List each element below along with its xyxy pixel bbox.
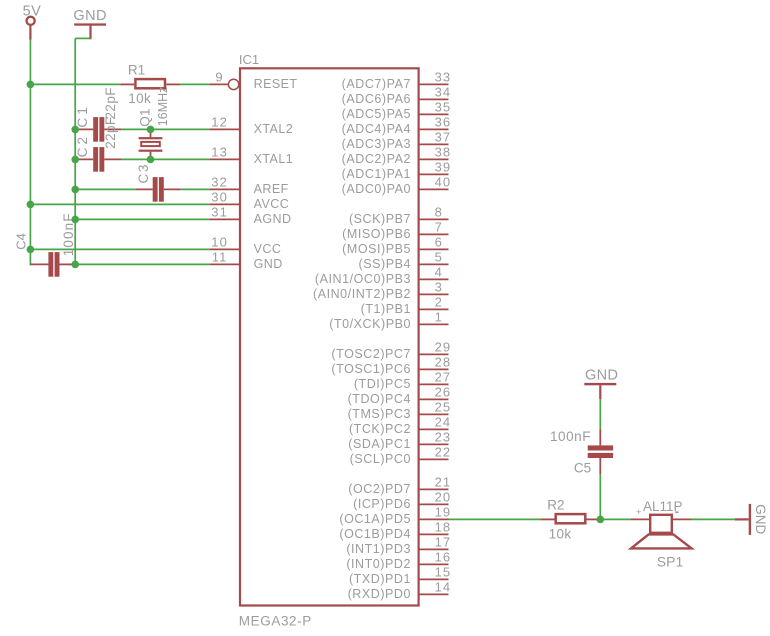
svg-text:37: 37 bbox=[435, 130, 452, 145]
svg-text:13: 13 bbox=[211, 145, 228, 160]
capacitor C2 22pF bbox=[75, 116, 121, 171]
svg-text:3: 3 bbox=[435, 280, 443, 295]
junction GND/AGND bbox=[71, 216, 79, 224]
IC1 right pin 34 (ADC6)PA6 bbox=[342, 85, 452, 106]
svg-text:SP1: SP1 bbox=[657, 553, 684, 569]
svg-text:(OC1B)PD4: (OC1B)PD4 bbox=[339, 527, 411, 541]
IC1 right pin 36 (ADC4)PA4 bbox=[342, 115, 452, 136]
IC1 right pin 40 (ADC0)PA0 bbox=[342, 175, 452, 196]
wire 5V to R1 bbox=[30, 83, 120, 85]
svg-text:40: 40 bbox=[435, 175, 452, 190]
svg-text:26: 26 bbox=[435, 385, 452, 400]
svg-text:36: 36 bbox=[435, 115, 452, 130]
svg-text:(ADC4)PA4: (ADC4)PA4 bbox=[342, 122, 411, 136]
IC1 right pin 23 (SDA)PC1 bbox=[348, 430, 451, 451]
junction GND/C3 bbox=[71, 186, 79, 194]
svg-text:20: 20 bbox=[435, 490, 452, 505]
svg-text:C4: C4 bbox=[14, 233, 29, 250]
svg-text:12: 12 bbox=[211, 115, 228, 130]
svg-text:(TMS)PC3: (TMS)PC3 bbox=[348, 407, 411, 421]
IC1 right pin 8 (SCK)PB7 bbox=[349, 205, 449, 226]
svg-text:5V: 5V bbox=[23, 3, 42, 19]
IC1 right pin 15 (TXD)PD1 bbox=[349, 565, 451, 586]
svg-text:19: 19 bbox=[435, 505, 452, 520]
IC1 right pin 25 (TMS)PC3 bbox=[348, 400, 452, 421]
IC1 right pin 39 (ADC1)PA1 bbox=[342, 160, 452, 181]
svg-text:100nF: 100nF bbox=[550, 429, 591, 444]
svg-text:(TOSC2)PC7: (TOSC2)PC7 bbox=[331, 347, 411, 361]
ground symbol GND (above C5) bbox=[584, 367, 618, 399]
svg-text:(ADC6)PA6: (ADC6)PA6 bbox=[342, 92, 411, 106]
svg-text:(ICP)PD6: (ICP)PD6 bbox=[353, 497, 411, 511]
svg-text:AREF: AREF bbox=[254, 182, 289, 196]
svg-text:+: + bbox=[636, 507, 642, 518]
svg-text:(T1)PB1: (T1)PB1 bbox=[361, 302, 411, 316]
svg-text:31: 31 bbox=[211, 205, 228, 220]
svg-text:21: 21 bbox=[435, 475, 452, 490]
speaker SP1 AL11P bbox=[631, 499, 692, 569]
svg-text:(AIN1/OC0)PB3: (AIN1/OC0)PB3 bbox=[315, 272, 411, 286]
wire GND vertical rail bbox=[74, 38, 76, 264]
wire GND symbol to rail bbox=[75, 37, 90, 39]
IC1 left pin 32 AREF bbox=[210, 175, 289, 196]
svg-text:(ADC5)PA5: (ADC5)PA5 bbox=[342, 107, 411, 121]
svg-text:34: 34 bbox=[435, 85, 452, 100]
svg-text:(SS)PB4: (SS)PB4 bbox=[359, 257, 411, 271]
svg-text:30: 30 bbox=[211, 190, 228, 205]
svg-text:AGND: AGND bbox=[254, 212, 292, 226]
svg-text:1: 1 bbox=[435, 310, 443, 325]
svg-text:C5: C5 bbox=[574, 460, 591, 475]
svg-text:(TOSC1)PC6: (TOSC1)PC6 bbox=[331, 362, 411, 376]
svg-text:39: 39 bbox=[435, 160, 452, 175]
svg-text:IC1: IC1 bbox=[239, 52, 259, 67]
svg-text:GND: GND bbox=[73, 8, 106, 24]
svg-text:23: 23 bbox=[435, 430, 452, 445]
junction XTAL1/Q1 bbox=[147, 156, 155, 164]
wire C3 to IC pin 32 bbox=[181, 188, 210, 190]
IC1 right pin 22 (SCL)PC0 bbox=[350, 445, 452, 466]
svg-text:22pF: 22pF bbox=[103, 116, 118, 148]
svg-text:25: 25 bbox=[435, 400, 452, 415]
ground symbol GND (top left) bbox=[73, 8, 106, 39]
IC1 right pin 33 (ADC7)PA7 bbox=[342, 70, 452, 91]
IC1 right pin 28 (TOSC1)PC6 bbox=[331, 355, 451, 376]
svg-text:17: 17 bbox=[435, 535, 452, 550]
svg-text:24: 24 bbox=[435, 415, 452, 430]
svg-text:VCC: VCC bbox=[254, 242, 282, 256]
IC1 right pin 38 (ADC2)PA2 bbox=[342, 145, 452, 166]
supply +5V symbol P1 bbox=[23, 3, 42, 39]
svg-text:10k: 10k bbox=[549, 526, 572, 541]
svg-text:(ADC1)PA1: (ADC1)PA1 bbox=[342, 167, 411, 181]
svg-text:(INT0)PD2: (INT0)PD2 bbox=[346, 557, 411, 571]
svg-text:10: 10 bbox=[211, 235, 228, 250]
svg-text:MEGA32-P: MEGA32-P bbox=[239, 614, 312, 629]
wire C5 to junction bbox=[599, 474, 601, 519]
svg-text:5: 5 bbox=[435, 250, 443, 265]
wire junction to SP1 bbox=[600, 518, 630, 520]
svg-text:R2: R2 bbox=[547, 497, 564, 512]
svg-text:GND: GND bbox=[585, 367, 618, 383]
wire 5V vertical rail bbox=[29, 40, 31, 266]
capacitor C5 100nF bbox=[550, 429, 613, 475]
svg-text:6: 6 bbox=[435, 235, 443, 250]
svg-text:27: 27 bbox=[435, 370, 452, 385]
svg-text:35: 35 bbox=[435, 100, 452, 115]
wire GND rail to AGND pin 31 bbox=[75, 218, 210, 220]
wire GND to C5 bbox=[599, 399, 601, 429]
IC1 right pin 17 (INT1)PD3 bbox=[346, 535, 451, 556]
IC1 right pin 5 (SS)PB4 bbox=[359, 250, 449, 271]
svg-text:16: 16 bbox=[435, 550, 452, 565]
IC1 right pin 16 (INT0)PD2 bbox=[346, 550, 451, 571]
svg-text:(TDI)PC5: (TDI)PC5 bbox=[354, 377, 411, 391]
IC1 left pin 12 XTAL2 bbox=[210, 115, 293, 136]
resistor R2 10k bbox=[540, 497, 600, 541]
svg-text:XTAL1: XTAL1 bbox=[254, 152, 294, 166]
svg-text:14: 14 bbox=[435, 580, 452, 595]
junction GND/C2 bbox=[71, 156, 79, 164]
svg-text:(ADC7)PA7: (ADC7)PA7 bbox=[342, 77, 411, 91]
svg-text:C3: C3 bbox=[136, 163, 151, 184]
wire GND junction to GND pin 11 bbox=[75, 263, 210, 265]
IC1 right pin 26 (TDO)PC4 bbox=[348, 385, 452, 406]
svg-text:(TDO)PC4: (TDO)PC4 bbox=[348, 392, 411, 406]
svg-text:16MHz: 16MHz bbox=[156, 87, 170, 127]
svg-text:18: 18 bbox=[435, 520, 452, 535]
wire GND rail to C3 bbox=[75, 188, 136, 190]
IC1 right pin 29 (TOSC2)PC7 bbox=[331, 340, 451, 361]
wire C2 to IC pin 13 bbox=[121, 158, 210, 160]
svg-text:(ADC2)PA2: (ADC2)PA2 bbox=[342, 152, 411, 166]
svg-text:RESET: RESET bbox=[254, 77, 298, 91]
svg-text:32: 32 bbox=[211, 175, 228, 190]
junction 5V/VCC bbox=[27, 246, 35, 254]
IC1 right pin 19 (OC1A)PD5 bbox=[339, 505, 451, 526]
svg-text:(TXD)PD1: (TXD)PD1 bbox=[349, 572, 411, 586]
svg-text:GND: GND bbox=[753, 504, 768, 534]
IC1 right pin 6 (MOSI)PB5 bbox=[342, 235, 448, 256]
svg-text:(SDA)PC1: (SDA)PC1 bbox=[348, 437, 411, 451]
ground symbol GND (right, rotated) bbox=[735, 504, 769, 535]
capacitor C3 bbox=[136, 163, 181, 202]
IC1 left pin 10 VCC bbox=[210, 235, 281, 256]
IC1 right pin 18 (OC1B)PD4 bbox=[339, 520, 451, 541]
svg-text:11: 11 bbox=[212, 250, 228, 265]
IC1 right pin 27 (TDI)PC5 bbox=[354, 370, 451, 391]
IC1 right pin 14 (RXD)PD0 bbox=[348, 580, 452, 601]
wire 5V rail to VCC pin 10 bbox=[30, 248, 210, 250]
junction 5V/AVCC bbox=[27, 201, 35, 209]
junction GND/C1 bbox=[71, 126, 79, 134]
IC1 left pin 11 GND bbox=[210, 250, 283, 271]
IC1 right pin 24 (TCK)PC2 bbox=[349, 415, 451, 436]
junction XTAL2/Q1 bbox=[147, 126, 155, 134]
svg-text:(ADC0)PA0: (ADC0)PA0 bbox=[342, 182, 411, 196]
svg-text:Q1: Q1 bbox=[138, 108, 153, 127]
svg-text:8: 8 bbox=[435, 205, 443, 220]
svg-text:28: 28 bbox=[435, 355, 452, 370]
svg-text:AVCC: AVCC bbox=[254, 197, 290, 211]
IC1 left pin 9 RESET bbox=[210, 70, 298, 91]
svg-text:C2: C2 bbox=[75, 134, 90, 158]
svg-text:22pF: 22pF bbox=[103, 87, 118, 119]
svg-text:29: 29 bbox=[435, 340, 452, 355]
svg-text:(AIN0/INT2)PB2: (AIN0/INT2)PB2 bbox=[313, 287, 411, 301]
capacitor C1 22pF bbox=[75, 87, 121, 142]
svg-text:XTAL2: XTAL2 bbox=[254, 122, 294, 136]
resistor R1 10k bbox=[120, 62, 180, 106]
svg-text:GND: GND bbox=[254, 257, 283, 271]
svg-text:(OC1A)PD5: (OC1A)PD5 bbox=[339, 512, 411, 526]
junction 5V/R1 bbox=[27, 81, 35, 89]
svg-text:C1: C1 bbox=[75, 104, 90, 128]
wire SP1 to GND bbox=[692, 518, 735, 520]
IC1 right pin 1 (T0/XCK)PB0 bbox=[329, 310, 448, 331]
IC1 left pin 31 AGND bbox=[210, 205, 292, 226]
crystal Q1 16MHz bbox=[138, 87, 170, 160]
svg-text:15: 15 bbox=[435, 565, 452, 580]
IC1 right pin 2 (T1)PB1 bbox=[361, 295, 449, 316]
IC1 right pin 35 (ADC5)PA5 bbox=[342, 100, 452, 121]
svg-text:(TCK)PC2: (TCK)PC2 bbox=[349, 422, 411, 436]
svg-text:7: 7 bbox=[435, 220, 443, 235]
IC1 right pin 37 (ADC3)PA3 bbox=[342, 130, 452, 151]
junction R2/C5/SP1 bbox=[597, 516, 605, 524]
svg-text:9: 9 bbox=[215, 70, 223, 85]
svg-text:(ADC3)PA3: (ADC3)PA3 bbox=[342, 137, 411, 151]
capacitor C4 100nF bbox=[14, 212, 77, 276]
svg-text:33: 33 bbox=[435, 70, 452, 85]
wire 5V rail to AVCC pin 30 bbox=[30, 203, 210, 205]
IC1 right pin 7 (MISO)PB6 bbox=[342, 220, 448, 241]
svg-text:(SCL)PC0: (SCL)PC0 bbox=[350, 452, 411, 466]
svg-text:38: 38 bbox=[435, 145, 452, 160]
wire C1 to IC pin 12 bbox=[121, 128, 210, 130]
IC1 right pin 4 (AIN1/OC0)PB3 bbox=[315, 265, 449, 286]
svg-text:(SCK)PB7: (SCK)PB7 bbox=[349, 212, 411, 226]
IC1 right pin 3 (AIN0/INT2)PB2 bbox=[313, 280, 449, 301]
svg-text:22: 22 bbox=[435, 445, 452, 460]
IC1 left pin 13 XTAL1 bbox=[210, 145, 293, 166]
svg-text:(T0/XCK)PB0: (T0/XCK)PB0 bbox=[329, 317, 411, 331]
svg-text:R1: R1 bbox=[128, 62, 145, 77]
svg-text:4: 4 bbox=[435, 265, 443, 280]
svg-text:10k: 10k bbox=[128, 91, 151, 106]
svg-text:(RXD)PD0: (RXD)PD0 bbox=[348, 587, 411, 601]
IC1 right pin 21 (OC2)PD7 bbox=[348, 475, 451, 496]
IC1 left pin 30 AVCC bbox=[210, 190, 289, 211]
junction GND/C4 bbox=[71, 261, 79, 269]
wire IC pin 19 to R2 bbox=[449, 518, 541, 520]
svg-text:(OC2)PD7: (OC2)PD7 bbox=[348, 482, 411, 496]
svg-text:(INT1)PD3: (INT1)PD3 bbox=[346, 542, 411, 556]
svg-text:2: 2 bbox=[435, 295, 443, 310]
svg-text:(MOSI)PB5: (MOSI)PB5 bbox=[342, 242, 411, 256]
IC1 right pin 20 (ICP)PD6 bbox=[353, 490, 451, 511]
wire R1 to IC pin 9 bbox=[180, 83, 210, 85]
svg-text:(MISO)PB6: (MISO)PB6 bbox=[342, 227, 411, 241]
IC U1 (IC1 MEGA32-P) body bbox=[239, 52, 419, 629]
